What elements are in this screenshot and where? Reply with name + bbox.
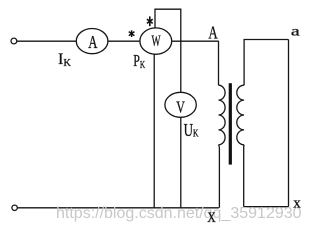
svg-text:UK: UK <box>184 121 199 141</box>
svg-text:W: W <box>151 33 161 50</box>
terminal bottom-left <box>12 205 17 210</box>
polarity mark current asterisk <box>129 30 135 37</box>
ammeter A1 body <box>76 28 108 53</box>
wire node to voltmeter <box>180 41 182 92</box>
svg-text:https://blog.csdn.net/qq_35912: https://blog.csdn.net/qq_35912930 <box>56 205 302 222</box>
polarity mark voltage asterisk <box>147 16 153 26</box>
svg-text:X: X <box>207 209 216 226</box>
svg-text:A: A <box>88 33 97 52</box>
transformer core <box>229 83 232 164</box>
terminal top-left <box>11 38 17 44</box>
svg-text:IK: IK <box>58 49 71 69</box>
wire secondary right vertical <box>288 40 290 207</box>
wire voltmeter bottom lead <box>180 117 182 207</box>
wire bottom return <box>17 207 219 209</box>
wire secondary bottom horizontal <box>244 206 289 208</box>
wire primary top lead <box>218 41 220 85</box>
svg-text:PK: PK <box>133 52 145 71</box>
wire wattmeter top loop <box>155 9 181 41</box>
wire secondary top horizontal <box>244 40 288 86</box>
wire secondary bottom lead <box>243 145 245 207</box>
voltmeter V1 body <box>165 92 196 117</box>
wire primary bottom lead <box>218 145 221 208</box>
svg-text:V: V <box>176 98 185 117</box>
svg-text:a: a <box>291 23 300 38</box>
wire wattmeter right to node A <box>172 40 219 42</box>
svg-text:x: x <box>293 196 301 212</box>
wire top-left to ammeter <box>17 40 76 42</box>
wire ammeter to wattmeter <box>108 40 140 42</box>
wire wattmeter voltage-coil lead <box>153 54 155 208</box>
inductor secondary winding <box>237 85 244 145</box>
svg-text:A: A <box>208 23 218 43</box>
wattmeter W1 body <box>140 28 172 54</box>
inductor primary winding <box>219 85 226 145</box>
